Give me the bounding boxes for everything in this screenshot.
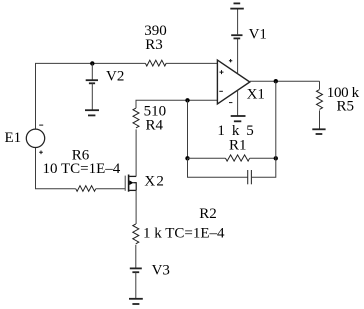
op-amp plus input marker xyxy=(220,70,224,74)
svg-text:V3: V3 xyxy=(152,263,170,279)
source E1 plus marker xyxy=(39,151,43,155)
wire R2 to V3 xyxy=(135,245,137,269)
node output dot xyxy=(274,79,278,83)
resistor R2 xyxy=(133,224,139,244)
wire E1 bottom to lower rail xyxy=(36,148,76,189)
resistor R3 xyxy=(145,60,166,66)
wire V3 to bottom ground xyxy=(135,272,137,299)
svg-text:R1: R1 xyxy=(229,138,247,154)
svg-text:1 k 5: 1 k 5 xyxy=(217,123,255,139)
resistor R1 xyxy=(226,155,250,161)
battery V2 xyxy=(86,63,98,110)
wire R1 right lead xyxy=(250,157,276,159)
resistor R6 xyxy=(76,186,96,192)
wire X2 source down to R2 xyxy=(135,190,137,224)
ground bottom xyxy=(129,299,143,304)
wire R6 to X2 gate xyxy=(96,188,126,190)
wire R5 bottom lead xyxy=(319,110,321,129)
resistor R5 xyxy=(317,90,323,110)
svg-text:V2: V2 xyxy=(106,69,124,85)
wire feedback right vertical xyxy=(275,81,277,158)
transistor X2 xyxy=(125,175,136,192)
svg-text:R5: R5 xyxy=(337,99,355,115)
wire V- stub xyxy=(237,90,239,116)
ground below op-amp xyxy=(231,116,246,121)
battery V3 xyxy=(130,268,142,272)
wire R3 to op-amp plus input xyxy=(166,62,218,64)
svg-text:R3: R3 xyxy=(145,37,163,53)
node minus junction dot xyxy=(185,98,189,102)
X2 arrow xyxy=(129,180,133,185)
ground top flipped xyxy=(230,3,244,8)
svg-text:10 TC=1E–4: 10 TC=1E–4 xyxy=(43,161,121,177)
op-amp V+ pin marker xyxy=(229,59,232,62)
resistor R4 xyxy=(133,108,139,128)
wire R1 left lead xyxy=(188,157,226,159)
wire R4 top hook to minus junction xyxy=(136,100,188,108)
wire X2 drain up to R4 xyxy=(135,129,137,176)
capacitor C1 xyxy=(248,170,252,184)
wire capacitor loop right xyxy=(251,158,275,177)
op-amp V- pin marker xyxy=(229,102,232,104)
op-amp minus input marker xyxy=(219,90,223,92)
svg-text:E1: E1 xyxy=(5,130,22,146)
battery V1 xyxy=(231,35,242,38)
wire V1 to top ground xyxy=(237,9,239,36)
wire V+ stub xyxy=(237,38,239,73)
wire feedback left vertical xyxy=(187,100,189,158)
svg-text:X1: X1 xyxy=(247,86,265,102)
svg-text:X2: X2 xyxy=(144,173,165,189)
op-amp X1 xyxy=(217,60,249,104)
source E1 xyxy=(26,129,44,147)
source E1 minus marker xyxy=(39,124,43,126)
svg-text:1 k TC=1E–4: 1 k TC=1E–4 xyxy=(143,225,225,241)
node R1 right dot xyxy=(274,156,278,160)
wire top left: E1 top to R3 xyxy=(36,63,146,129)
svg-text:R4: R4 xyxy=(145,117,163,133)
node R1 left dot xyxy=(185,156,189,160)
svg-text:V1: V1 xyxy=(249,27,267,43)
wire capacitor loop left xyxy=(188,158,248,177)
node V2 junction dot xyxy=(90,61,94,65)
svg-text:R2: R2 xyxy=(199,206,217,222)
wire output xyxy=(250,80,320,82)
ground below R5 xyxy=(312,129,325,134)
wire minus junction to op-amp minus input xyxy=(188,99,218,101)
wire R5 top lead xyxy=(319,81,321,89)
ground below V2 xyxy=(85,110,99,115)
